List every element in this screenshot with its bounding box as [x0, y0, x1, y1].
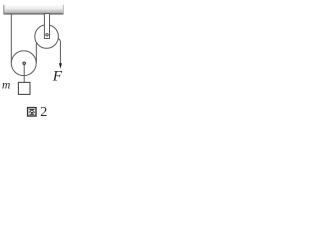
- pulley (fixed) wheel: [35, 25, 59, 49]
- axle pin of fixed pulley: [46, 34, 48, 36]
- block m (weight): [18, 82, 30, 94]
- wire: middle rope from fixed pulley to movable pulley: [35, 41, 37, 63]
- arrow head of force F: [59, 63, 62, 69]
- wire: right rope from fixed pulley downward: [58, 38, 60, 65]
- wire: left rope from ceiling to movable pulley: [10, 14, 12, 63]
- caption glyph 图 (drawn): [28, 108, 36, 116]
- wire: link from axle down to block: [23, 64, 25, 82]
- bracket of fixed pulley: [44, 14, 49, 39]
- svg-text:2: 2: [40, 105, 47, 120]
- axle of movable pulley: [23, 62, 25, 64]
- ceiling: [3, 5, 64, 15]
- svg-text:m: m: [2, 80, 10, 92]
- svg-text:F: F: [52, 67, 63, 84]
- pulley (movable) wheel: [11, 51, 36, 76]
